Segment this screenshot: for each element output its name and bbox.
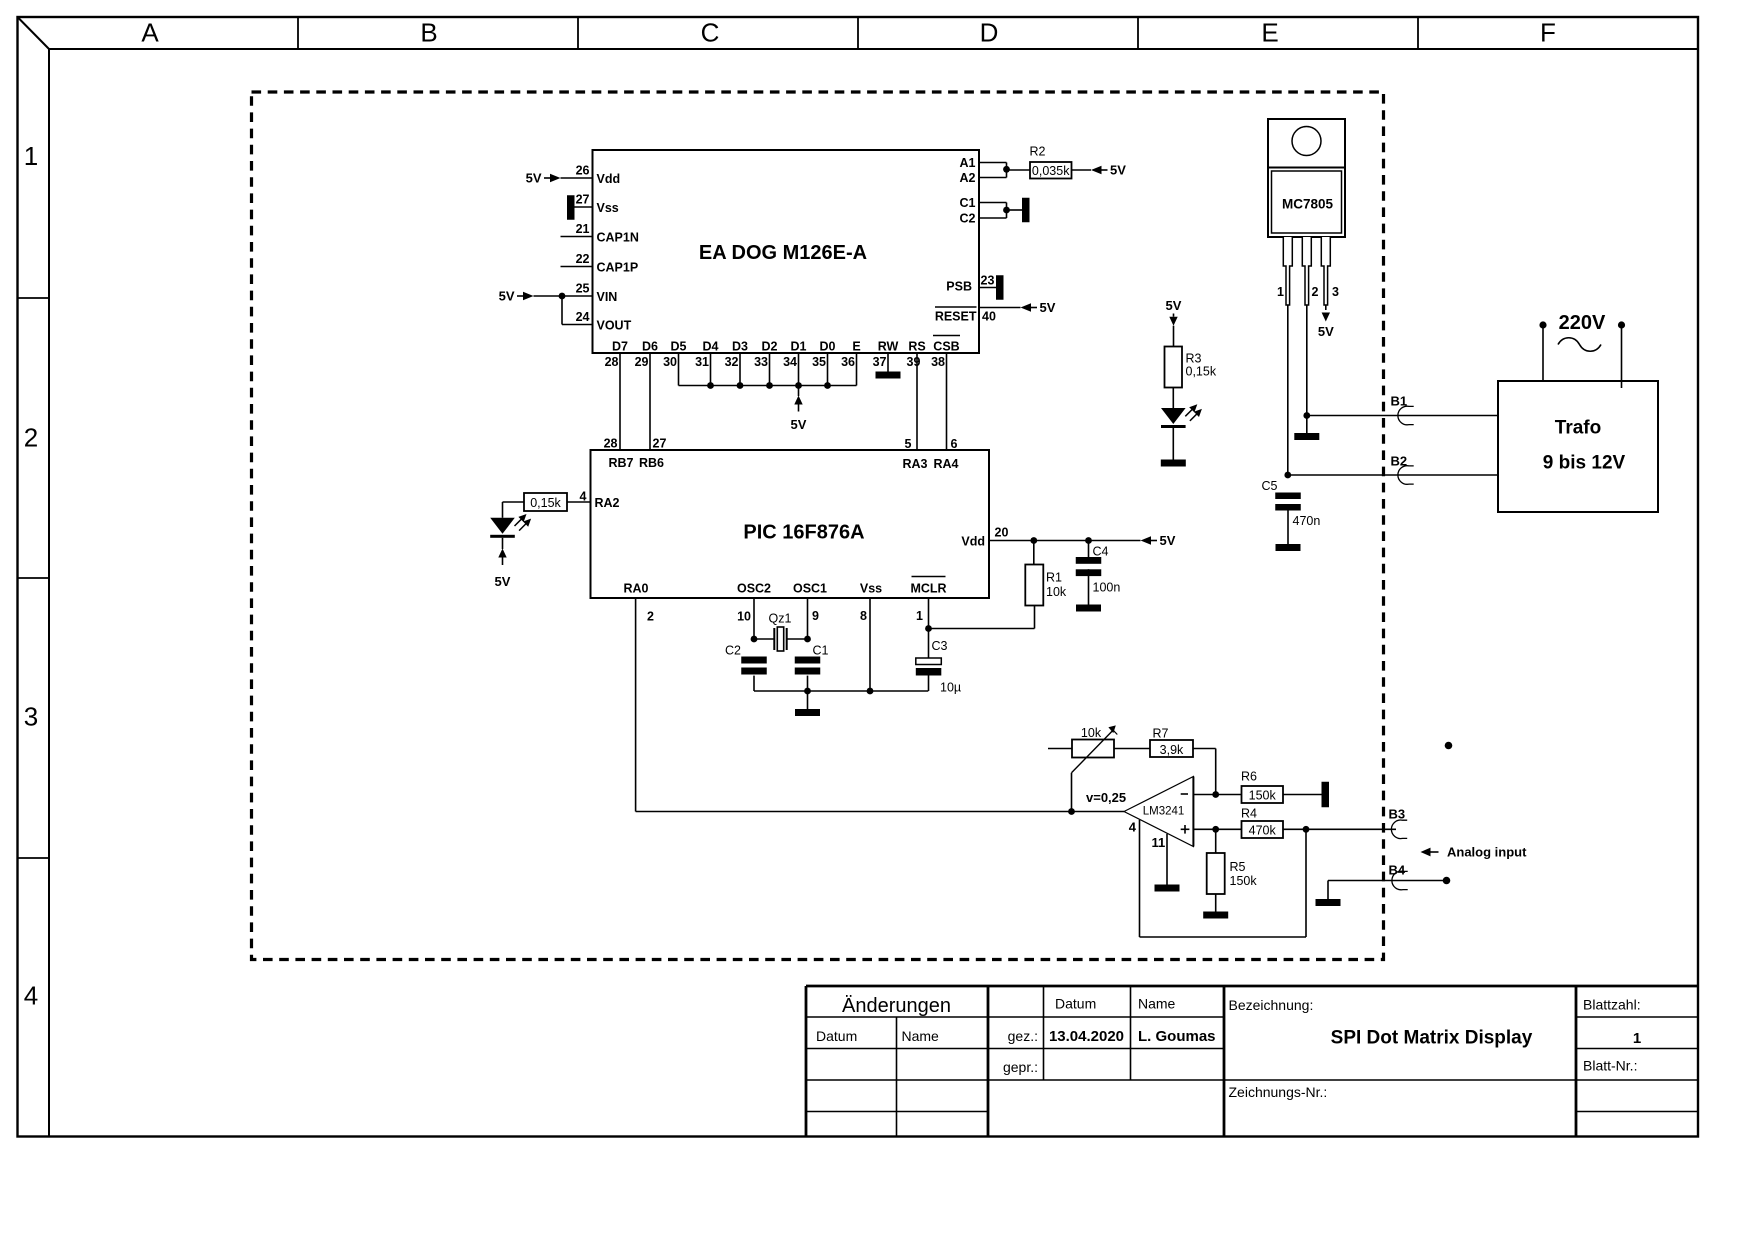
ground (leg2) [1306,416,1308,434]
node 220V left [1539,321,1546,328]
wire D3 down [739,353,741,386]
svg-text:Änderungen: Änderungen [842,995,951,1017]
pin A1 [979,162,1007,164]
LED light arrows (R3) [1185,408,1193,416]
wire D5 down [678,353,680,386]
wire leg1 down [1287,305,1289,475]
junction R4/feedback [1303,826,1310,833]
analog input arrow [1421,848,1431,857]
svg-text:R2: R2 [1030,145,1046,159]
pin 4 RA2 [567,501,591,503]
wire RA0 to op-amp [635,598,637,812]
power 5V arrow (Vdd net) [1141,536,1152,544]
junction D0 bus [824,382,831,389]
svg-text:Vdd: Vdd [961,534,985,548]
svg-text:6: 6 [951,437,958,451]
wire minus input [1193,794,1241,796]
svg-text:OSC2: OSC2 [737,581,771,595]
svg-text:D5: D5 [671,340,687,354]
AC symbol [1558,338,1601,352]
svg-text:3: 3 [1332,285,1339,299]
IC U1 EA DOG M126E-A (display) [593,150,980,353]
svg-text:RB6: RB6 [639,456,664,470]
svg-text:27: 27 [576,193,590,207]
svg-text:VIN: VIN [597,290,618,304]
svg-text:34: 34 [783,355,797,369]
LED D1 (RA2) [490,518,515,534]
svg-text:10k: 10k [1046,585,1067,599]
svg-text:C1: C1 [813,644,829,658]
svg-text:5V: 5V [1160,533,1176,548]
LED D2 (R3) [1161,408,1186,424]
junction C1 bus [804,688,811,695]
svg-text:Zeichnungs-Nr.:: Zeichnungs-Nr.: [1229,1084,1328,1100]
svg-text:35: 35 [812,355,826,369]
svg-text:RB7: RB7 [608,456,633,470]
supply bar (C1/C2) [1022,198,1030,223]
svg-text:Blatt-Nr.:: Blatt-Nr.: [1583,1058,1637,1074]
wire RW to ground [887,353,889,372]
resistor R1 [1033,541,1035,565]
svg-text:Vdd: Vdd [597,172,621,186]
svg-text:5V: 5V [495,574,511,589]
ground (oscillator) [807,691,809,709]
svg-text:10: 10 [737,610,751,624]
svg-text:D3: D3 [732,340,748,354]
svg-text:10k: 10k [1081,726,1102,740]
node (floating) [1445,742,1453,750]
svg-text:2: 2 [24,423,38,453]
svg-text:5V: 5V [791,417,807,432]
svg-text:C: C [701,18,720,48]
svg-text:B3: B3 [1389,807,1406,822]
svg-text:D4: D4 [703,340,719,354]
wire R4 to B3 [1283,828,1396,830]
svg-text:4: 4 [24,981,38,1011]
junction VIN/VOUT [559,293,566,300]
wire C2 to gnd bus [753,676,755,691]
svg-text:OSC1: OSC1 [793,581,827,595]
junction Vdd/C4 [1085,537,1092,544]
voltage regulator MC7805 (TO-220) [1268,119,1345,168]
svg-text:29: 29 [635,355,649,369]
junction leg2/B1 [1303,412,1310,419]
svg-text:R5: R5 [1230,860,1246,874]
svg-text:2: 2 [1312,285,1319,299]
resistor R4 [1242,821,1284,838]
svg-text:B: B [420,18,437,48]
capacitor C2 [741,657,767,664]
ground bus wire [754,690,928,692]
junction D2 bus [766,382,773,389]
wire LED to ground [1172,428,1174,460]
svg-text:0,15k: 0,15k [530,496,561,510]
junction D3 bus [737,382,744,389]
svg-text:CAP1N: CAP1N [597,230,639,244]
svg-text:C2: C2 [725,644,741,658]
junction OSC1 [804,636,811,643]
circuit boundary (dashed frame) [252,92,1384,960]
svg-text:40: 40 [982,310,996,324]
svg-text:Analog input: Analog input [1447,844,1527,859]
svg-text:100n: 100n [1093,581,1121,595]
supply bar (R6) [1322,782,1330,808]
svg-text:22: 22 [576,252,590,266]
power 5V arrow (RA2 LED) [498,549,506,558]
svg-text:D: D [980,18,999,48]
junction leg1/B2 [1284,472,1291,479]
svg-text:1: 1 [1277,285,1284,299]
svg-text:Trafo: Trafo [1555,418,1601,439]
ground (C5) [1276,544,1301,551]
svg-text:220V: 220V [1559,312,1606,334]
svg-text:Qz1: Qz1 [769,612,792,626]
wire C1-C2 tie [1006,203,1008,219]
MC7805 leg 1 [1283,237,1292,305]
svg-text:PIC 16F876A: PIC 16F876A [743,522,864,544]
wire C1 to gnd bus [807,676,809,691]
svg-text:5V: 5V [1110,163,1126,178]
svg-text:R4: R4 [1241,807,1257,821]
transformer Trafo 9 bis 12V [1498,381,1658,512]
pin 21 CAP1N [561,236,593,238]
svg-text:RESET: RESET [935,310,977,324]
resistor R6 [1242,786,1284,803]
svg-text:Name: Name [1138,996,1176,1012]
pin 25 VIN [534,295,593,297]
svg-text:10µ: 10µ [940,681,961,695]
junction R7/minus [1212,791,1219,798]
supply bar (PSB) [996,275,1004,300]
svg-text:5V: 5V [499,289,515,304]
svg-text:13.04.2020: 13.04.2020 [1049,1028,1124,1045]
svg-text:5V: 5V [526,171,542,186]
svg-text:Vss: Vss [860,581,882,595]
junction C1/C2 node [1003,207,1010,214]
svg-text:39: 39 [907,355,921,369]
svg-text:F: F [1540,18,1556,48]
wire R2 to 5V [1072,169,1092,171]
resistor R2 [1030,162,1072,179]
svg-text:C5: C5 [1262,479,1278,493]
svg-text:Datum: Datum [816,1028,857,1044]
svg-text:24: 24 [576,310,590,324]
svg-text:0,035k: 0,035k [1032,164,1070,178]
wire node to op-amp [1072,811,1125,813]
svg-text:gepr.:: gepr.: [1003,1059,1038,1075]
svg-text:D0: D0 [820,340,836,354]
junction OSC2 [751,636,758,643]
pin C2 [979,217,1007,219]
power 5V arrow (data bus) [798,386,800,397]
svg-text:5V: 5V [1318,324,1334,339]
wire D6 to RB6 [649,353,651,450]
svg-text:D6: D6 [642,340,658,354]
wire B2 net [1288,474,1498,476]
node B4 end [1443,877,1451,885]
svg-text:LM3241: LM3241 [1143,806,1185,818]
wire OSC2 down [753,598,755,639]
svg-text:MCLR: MCLR [910,581,946,595]
pin 40 RESET [979,307,1021,309]
wire E down [856,353,858,386]
svg-text:38: 38 [931,355,945,369]
svg-text:31: 31 [695,355,709,369]
svg-text:26: 26 [576,164,590,178]
wire CSB to RA4 [946,353,948,450]
wire 220V right [1621,326,1623,389]
svg-text:28: 28 [605,355,619,369]
svg-text:9 bis 12V: 9 bis 12V [1543,453,1626,474]
resistor R3 [1165,347,1183,388]
capacitor C1 [795,657,821,664]
svg-text:21: 21 [576,222,590,236]
svg-text:RA2: RA2 [595,496,620,510]
svg-text:0,15k: 0,15k [1186,364,1217,378]
svg-text:Bezeichnung:: Bezeichnung: [1229,997,1314,1013]
svg-text:A: A [141,18,159,48]
svg-text:D2: D2 [762,340,778,354]
svg-text:Vss: Vss [597,201,619,215]
svg-text:9: 9 [812,609,819,623]
svg-text:CAP1P: CAP1P [597,260,639,274]
junction op-amp input node [1068,808,1075,815]
svg-text:R3: R3 [1186,351,1202,365]
junction D4 bus [707,382,714,389]
svg-text:C1: C1 [960,196,976,210]
svg-text:36: 36 [841,355,855,369]
resistor R7 [1150,740,1193,757]
wire A1-A2 tie [1006,163,1008,178]
wire corner down to LED [502,502,504,518]
svg-text:4: 4 [580,490,587,504]
power 5V arrow (pin 25) [523,292,534,300]
wire B1 net [1307,415,1498,417]
svg-text:Datum: Datum [1055,996,1096,1012]
svg-text:D1: D1 [791,340,807,354]
junction plus/R5 [1212,826,1219,833]
junction Vdd/R1 [1030,537,1037,544]
svg-text:E: E [852,340,860,354]
crystal Qz1 [754,638,774,640]
ground (B4) [1327,881,1329,900]
pin A2 [979,177,1007,179]
svg-text:470k: 470k [1249,824,1277,838]
svg-text:MC7805: MC7805 [1282,197,1334,212]
wire B4 net [1328,880,1447,882]
wire D4 down [710,353,712,386]
ground (R5) [1203,912,1228,919]
wire 5V to R3 [1173,326,1175,347]
wire R6 to bar [1283,794,1322,796]
wire pot to R7 [1114,748,1150,750]
resistor R (0,15k at RA2) [524,493,567,511]
wire MCLR down [928,598,930,629]
svg-text:RA4: RA4 [933,457,958,471]
svg-text:3: 3 [24,702,38,732]
svg-text:RW: RW [878,340,899,354]
svg-text:5: 5 [905,437,912,451]
svg-text:SPI Dot Matrix Display: SPI Dot Matrix Display [1331,1028,1533,1049]
wire node to bar [1007,209,1023,211]
svg-text:3,9k: 3,9k [1160,743,1184,757]
supply bar (pin 27 Vss) [567,195,575,220]
svg-text:37: 37 [873,355,887,369]
svg-text:C3: C3 [932,639,948,653]
svg-text:gez.:: gez.: [1008,1028,1038,1044]
svg-text:32: 32 [725,355,739,369]
svg-text:C2: C2 [960,212,976,226]
svg-text:R6: R6 [1241,770,1257,784]
svg-text:1: 1 [24,141,38,171]
svg-text:VOUT: VOUT [597,318,632,332]
MC7805 leg 3 [1321,237,1330,305]
power 5V arrow (MC7805 out) [1325,305,1327,310]
svg-text:RA0: RA0 [623,581,648,595]
svg-text:5V: 5V [1040,300,1056,315]
svg-text:C4: C4 [1093,545,1109,559]
pin 26 Vdd [561,177,593,179]
svg-text:R1: R1 [1046,571,1062,585]
svg-text:8: 8 [860,609,867,623]
svg-text:CSB: CSB [933,340,959,354]
svg-text:11: 11 [1152,835,1166,850]
svg-text:1: 1 [916,609,923,623]
wire Vdd net [989,540,1141,542]
capacitor C4 [1088,541,1090,558]
svg-text:27: 27 [653,437,667,451]
svg-text:470n: 470n [1293,514,1321,528]
wire RS to RA3 [916,353,918,450]
junction Vss bus [867,688,874,695]
svg-text:2: 2 [647,610,654,624]
svg-text:1: 1 [1633,1030,1641,1047]
ground (RW) [876,372,901,379]
svg-text:5V: 5V [1166,298,1182,313]
svg-text:20: 20 [995,526,1009,540]
svg-text:30: 30 [663,355,677,369]
wire R5 to ground [1215,894,1217,912]
svg-text:R7: R7 [1153,727,1169,741]
wire R to corner [503,501,525,503]
svg-text:150k: 150k [1230,874,1258,888]
node 220V right [1618,321,1625,328]
wire LED to 5V [502,538,504,549]
pin C1 [979,202,1007,204]
svg-text:E: E [1261,18,1278,48]
junction A1/A2 node [1003,166,1010,173]
svg-text:RS: RS [908,340,925,354]
svg-text:A1: A1 [960,156,976,170]
power 5V arrow (pin 26) [550,174,561,182]
svg-text:A2: A2 [960,171,976,185]
LED light arrows (RA2) [515,518,523,526]
junction D1 bus [795,382,802,389]
power 5V arrow (RESET) [1021,303,1032,311]
pin 27 Vss [575,206,593,208]
wire D2 down [769,353,771,386]
wire data bus tie D5-E [679,385,857,387]
svg-text:4: 4 [1129,820,1137,835]
svg-text:PSB: PSB [946,280,972,294]
svg-text:150k: 150k [1249,789,1277,803]
svg-text:23: 23 [981,274,995,288]
wire R3 to LED [1172,388,1174,409]
wire plus input [1193,828,1241,830]
svg-text:L. Goumas: L. Goumas [1138,1028,1216,1045]
title block grid [805,986,808,1137]
MC7805 leg 2 [1302,237,1311,305]
wire D1 down [798,353,800,386]
wire MCLR to R1 [929,628,1035,630]
wire OSC1 down [807,598,809,639]
svg-text:EA DOG M126E-A: EA DOG M126E-A [699,242,867,264]
wire 220V left [1542,326,1544,382]
wire node to R2 [1007,169,1031,171]
junction MCLR node [925,625,932,632]
wire D0 down [827,353,829,386]
wire R7 to minus input [1193,748,1216,750]
svg-text:B4: B4 [1389,863,1406,878]
svg-text:28: 28 [604,437,618,451]
svg-text:Name: Name [902,1028,940,1044]
op-amp U3 LM3241 [1124,777,1193,847]
wire Vss down [869,598,871,691]
wire leg2 down [1306,305,1308,416]
wire D7 to RB7 [619,353,621,450]
ground (C4) [1076,605,1101,612]
svg-text:33: 33 [754,355,768,369]
svg-text:25: 25 [576,282,590,296]
svg-text:v=0,25: v=0,25 [1086,790,1126,805]
power 5V arrow (R2) [1091,166,1102,174]
IC U2 PIC 16F876A (microcontroller) [591,450,990,598]
wire VIN to VOUT [561,296,563,325]
ground (R3 LED) [1161,460,1186,467]
resistor R5 [1215,829,1217,853]
svg-text:RA3: RA3 [902,457,927,471]
svg-text:Blattzahl:: Blattzahl: [1583,997,1641,1013]
pin 23 PSB [979,287,996,289]
pin 22 CAP1P [561,266,593,268]
svg-text:D7: D7 [612,340,628,354]
